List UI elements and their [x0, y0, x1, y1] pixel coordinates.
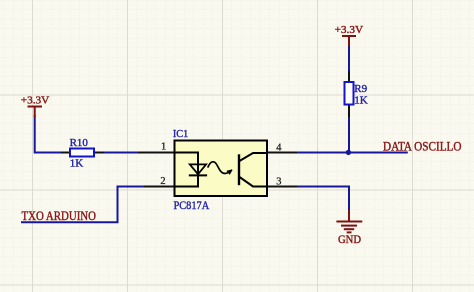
- svg-text:IC1: IC1: [173, 128, 188, 140]
- svg-text:3: 3: [276, 176, 281, 187]
- svg-text:DATA OSCILLO: DATA OSCILLO: [383, 138, 462, 153]
- svg-text:+3.3V: +3.3V: [335, 24, 364, 36]
- svg-text:1K: 1K: [70, 158, 84, 170]
- svg-text:1K: 1K: [354, 94, 368, 106]
- svg-text:4: 4: [276, 142, 282, 153]
- svg-text:1: 1: [161, 141, 166, 152]
- svg-text:GND: GND: [338, 234, 361, 246]
- svg-text:+3.3V: +3.3V: [21, 94, 50, 106]
- svg-text:TXO ARDUINO: TXO ARDUINO: [22, 208, 97, 223]
- svg-text:R10: R10: [70, 137, 89, 149]
- svg-text:2: 2: [160, 176, 165, 187]
- svg-text:PC817A: PC817A: [174, 200, 210, 212]
